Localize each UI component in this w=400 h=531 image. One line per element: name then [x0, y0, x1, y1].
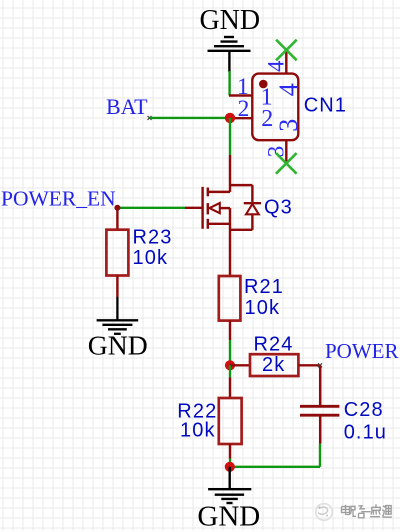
svg-text:Q3: Q3	[264, 196, 293, 218]
wire node down to R22	[229, 365, 231, 377]
pin 1 line	[229, 94, 252, 96]
top stub	[208, 191, 230, 193]
svg-text:GND: GND	[199, 5, 260, 36]
wire R21 to node	[229, 340, 231, 365]
R23 top pin	[116, 208, 118, 230]
svg-text:4: 4	[274, 83, 303, 96]
channel segments	[207, 188, 209, 197]
resistor R22	[219, 398, 242, 444]
wire C28 to bottom rail	[319, 444, 321, 467]
wire BAT	[150, 117, 230, 119]
pin 4 line	[285, 50, 287, 74]
gate pin	[185, 207, 203, 209]
svg-text:2k: 2k	[262, 354, 285, 376]
svg-text:POWER: POWER	[325, 339, 399, 363]
drain pin	[229, 155, 231, 192]
resistor R23	[106, 230, 128, 276]
pin 3 line	[285, 140, 287, 163]
watermark logo circle	[316, 504, 333, 521]
svg-text:POWER_EN: POWER_EN	[1, 186, 116, 210]
bottom stub	[208, 223, 230, 225]
svg-text:3: 3	[264, 146, 289, 158]
wire GND to pin1	[228, 71, 230, 96]
wire R22 to bottom node	[229, 459, 231, 467]
svg-text:CN1: CN1	[304, 95, 347, 117]
svg-text:3: 3	[274, 119, 303, 132]
source stub with arrow	[220, 207, 230, 209]
watermark text 电路一点通	[342, 504, 392, 518]
pin 4 no-connect X	[276, 40, 297, 61]
wire down to Q3	[229, 118, 231, 155]
svg-text:4: 4	[264, 60, 289, 72]
svg-text:BAT: BAT	[106, 94, 148, 119]
svg-text:0.1u: 0.1u	[344, 422, 387, 444]
R24 left pin	[230, 364, 250, 366]
R22 top pin	[229, 378, 231, 399]
junction POWER_EN node	[114, 205, 120, 211]
svg-text:GND: GND	[88, 330, 148, 361]
R22 bottom pin	[229, 444, 231, 459]
svg-text:10k: 10k	[245, 297, 281, 319]
source vertical	[229, 208, 231, 275]
svg-text:R24: R24	[254, 334, 294, 356]
svg-text:C28: C28	[344, 399, 384, 421]
wire node to C28	[319, 365, 322, 405]
connector CN1 pin-1 marker dot	[259, 80, 268, 89]
ground symbol (top, flipped)	[208, 37, 251, 72]
svg-text:2: 2	[238, 96, 250, 122]
body diode branch	[230, 184, 252, 186]
ground symbol (left)	[97, 297, 139, 334]
junction divider node	[225, 360, 235, 370]
connector CN1 body	[252, 74, 298, 141]
pin 2 line	[229, 117, 252, 119]
resistor R24	[250, 354, 298, 376]
junction bottom node	[225, 462, 235, 472]
svg-text:R23: R23	[133, 226, 173, 248]
svg-text:R21: R21	[244, 276, 284, 298]
svg-text:GND: GND	[197, 500, 260, 531]
R23 bottom pin	[116, 276, 118, 298]
transistor Q3 (P-MOSFET with body diode)	[185, 155, 261, 275]
R24 right pin	[298, 364, 320, 366]
C28 bottom pin	[319, 416, 322, 444]
wire anchor tick POWER	[318, 363, 322, 367]
resistor R21	[219, 276, 241, 321]
svg-text:2: 2	[261, 106, 273, 132]
junction BAT node	[225, 113, 235, 123]
body diode triangle	[246, 204, 259, 214]
wire bottom rail	[230, 466, 320, 468]
svg-text:10k: 10k	[180, 420, 216, 442]
R21 bottom pin	[229, 321, 231, 340]
source arrowhead	[210, 203, 220, 213]
pin 3 no-connect X	[276, 153, 297, 174]
svg-text:10k: 10k	[133, 247, 169, 269]
ground symbol (bottom)	[208, 467, 251, 503]
capacitor C28	[300, 406, 339, 415]
wire anchor tick	[148, 116, 152, 120]
gate bar	[201, 187, 203, 229]
wire POWER_EN to gate	[117, 207, 185, 209]
